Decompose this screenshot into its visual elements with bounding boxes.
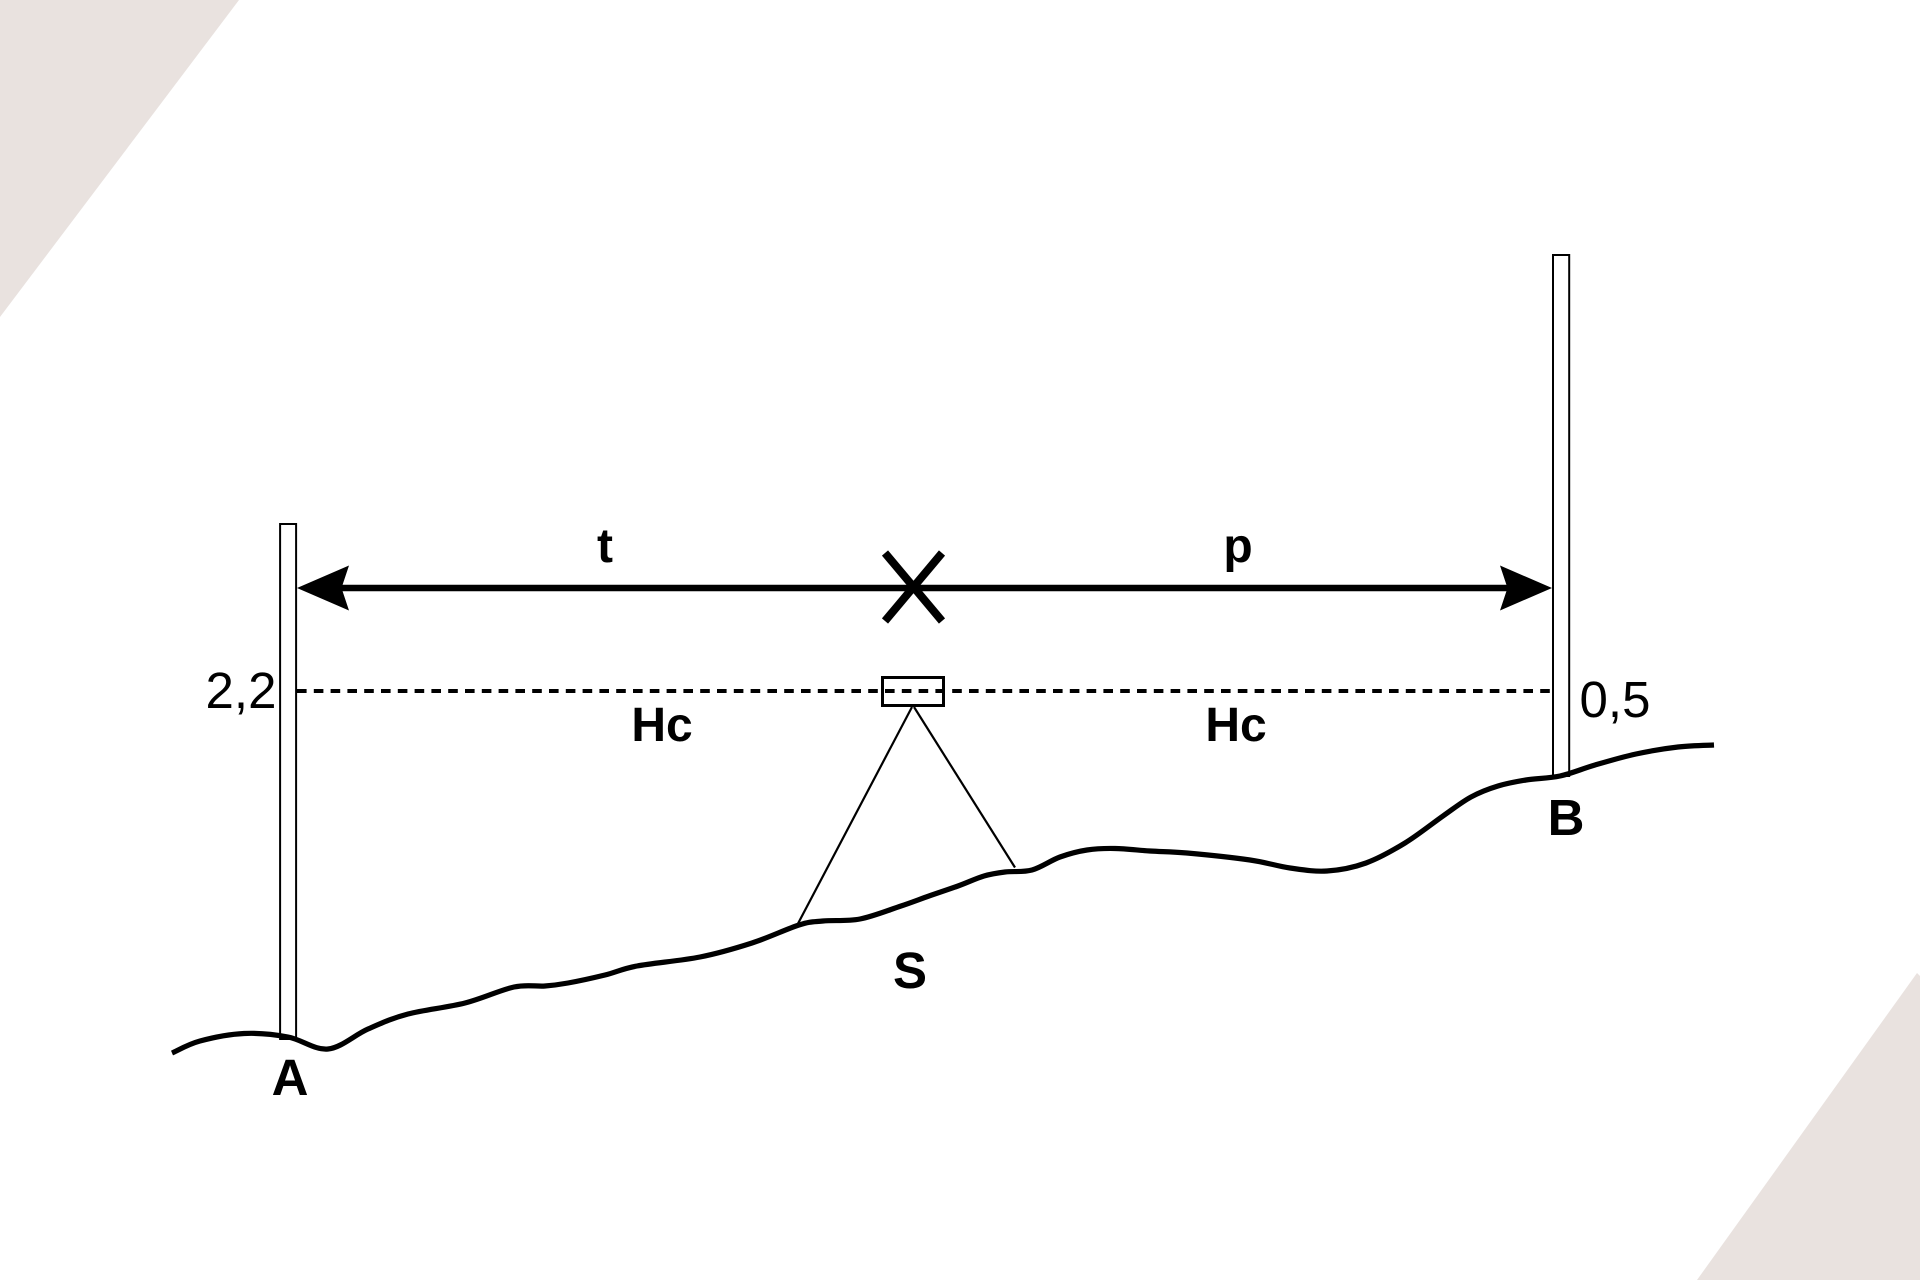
instrument (level) body [883,678,944,706]
svg-text:A: A [272,1049,309,1106]
dashed line of sight [297,689,1552,693]
distance arrow shaft [341,585,1508,592]
arrowhead right [1500,566,1552,611]
X mark at midpoint [885,553,942,621]
corner decoration top-left [0,0,239,317]
svg-text:p: p [1223,520,1252,573]
svg-text:S: S [893,942,927,999]
staff B (levelling rod at point B) [1553,255,1569,776]
tripod leg left [798,707,913,925]
tripod leg right [914,707,1015,868]
terrain line [172,745,1714,1053]
svg-text:0,5: 0,5 [1580,671,1651,728]
svg-text:B: B [1548,789,1585,846]
svg-text:Hc: Hc [631,699,692,752]
svg-text:Hc: Hc [1205,699,1266,752]
corner decoration bottom-right [1697,973,1920,1280]
arrowhead left [297,566,349,611]
svg-text:2,2: 2,2 [206,662,277,719]
staff A (levelling rod at point A) [280,524,296,1039]
svg-text:t: t [597,520,613,573]
